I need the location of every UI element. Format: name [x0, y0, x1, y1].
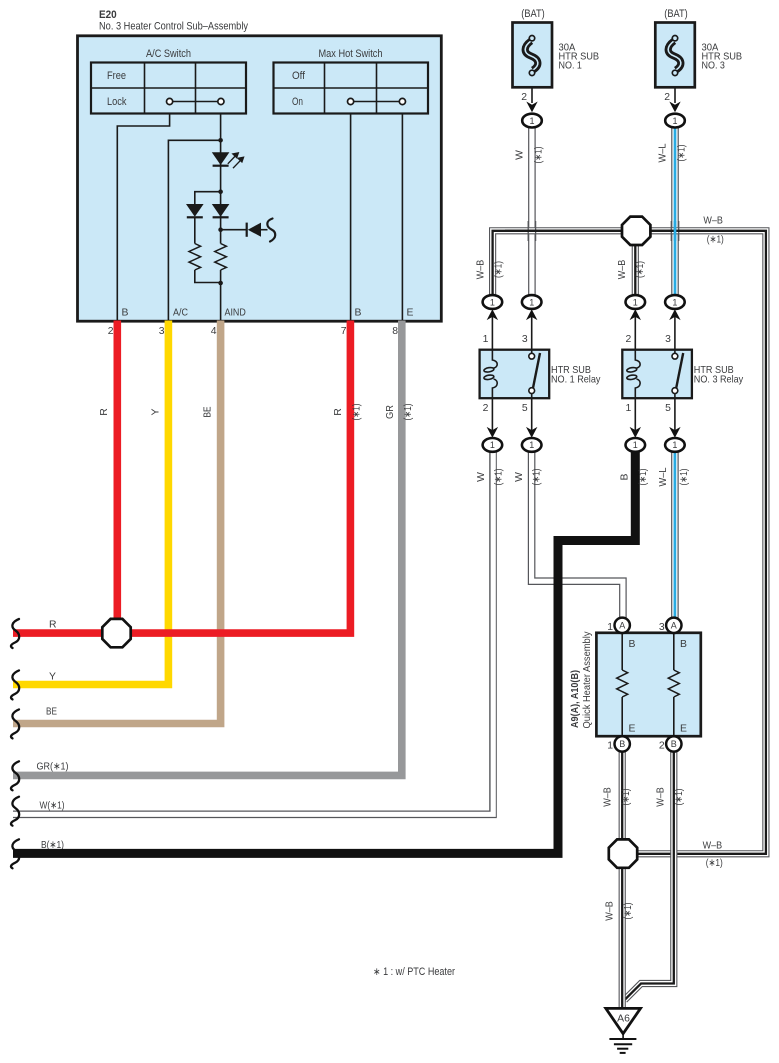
svg-text:(∗1): (∗1)	[706, 858, 723, 869]
svg-text:NO. 1 Relay: NO. 1 Relay	[551, 374, 601, 385]
svg-text:3: 3	[159, 326, 165, 337]
svg-text:(∗1): (∗1)	[494, 469, 505, 486]
svg-text:GR: GR	[385, 405, 396, 419]
svg-text:Lock: Lock	[107, 96, 127, 108]
svg-text:BE: BE	[46, 707, 57, 718]
svg-text:8: 8	[392, 326, 398, 337]
svg-text:1: 1	[607, 622, 613, 633]
svg-text:1: 1	[672, 116, 677, 126]
svg-text:W(∗1): W(∗1)	[40, 801, 65, 812]
svg-text:(∗1): (∗1)	[635, 261, 646, 278]
svg-text:E20: E20	[99, 9, 117, 21]
svg-text:1: 1	[633, 440, 638, 450]
svg-text:(∗1): (∗1)	[674, 789, 685, 806]
svg-text:AIND: AIND	[225, 308, 246, 319]
svg-text:1: 1	[672, 297, 677, 307]
svg-text:W–B: W–B	[617, 260, 628, 280]
svg-text:W–L: W–L	[658, 467, 669, 486]
svg-text:4: 4	[211, 326, 217, 337]
svg-text:On: On	[292, 96, 303, 108]
svg-text:Y: Y	[151, 408, 162, 415]
svg-text:R: R	[49, 620, 57, 631]
svg-text:B: B	[355, 308, 362, 319]
svg-text:Max Hot Switch: Max Hot Switch	[319, 48, 383, 60]
svg-text:A/C Switch: A/C Switch	[146, 48, 191, 60]
svg-text:B: B	[671, 739, 677, 749]
svg-text:1: 1	[633, 297, 638, 307]
svg-text:E: E	[407, 308, 414, 319]
svg-text:2: 2	[664, 92, 670, 103]
svg-text:(∗1): (∗1)	[534, 147, 545, 164]
svg-text:(∗1): (∗1)	[679, 469, 690, 486]
svg-text:1: 1	[490, 297, 495, 307]
svg-text:Quick Heater Assembly: Quick Heater Assembly	[582, 631, 593, 729]
svg-text:W–B: W–B	[603, 787, 614, 807]
svg-text:(∗1): (∗1)	[638, 469, 649, 486]
svg-text:No. 3 Heater Control Sub–Assem: No. 3 Heater Control Sub–Assembly	[99, 21, 249, 33]
svg-text:5: 5	[522, 403, 528, 414]
svg-text:5: 5	[665, 403, 671, 414]
svg-text:Off: Off	[292, 70, 305, 82]
svg-text:(∗1): (∗1)	[621, 789, 632, 806]
svg-text:1: 1	[490, 440, 495, 450]
svg-text:R: R	[333, 408, 344, 416]
svg-text:B: B	[629, 639, 636, 650]
svg-text:2: 2	[626, 334, 632, 345]
svg-text:7: 7	[341, 326, 347, 337]
svg-text:∗ 1 : w/ PTC Heater: ∗ 1 : w/ PTC Heater	[373, 966, 455, 978]
svg-text:W: W	[515, 150, 526, 160]
svg-text:NO. 1: NO. 1	[559, 60, 583, 71]
svg-text:(∗1): (∗1)	[677, 145, 688, 162]
svg-text:W: W	[476, 472, 487, 482]
svg-text:W–B: W–B	[475, 260, 486, 280]
svg-text:(BAT): (BAT)	[664, 8, 688, 20]
svg-text:3: 3	[659, 622, 665, 633]
svg-text:NO. 3 Relay: NO. 3 Relay	[694, 374, 744, 385]
svg-text:E: E	[629, 724, 636, 735]
svg-text:R: R	[99, 408, 110, 416]
svg-text:(∗1): (∗1)	[532, 469, 543, 486]
svg-text:(∗1): (∗1)	[707, 235, 724, 246]
svg-text:W–B: W–B	[605, 901, 616, 921]
svg-text:3: 3	[522, 334, 528, 345]
svg-text:W–B: W–B	[703, 841, 723, 852]
svg-text:A6: A6	[617, 1014, 630, 1025]
svg-text:Free: Free	[107, 70, 126, 82]
svg-text:1: 1	[626, 403, 632, 414]
svg-text:2: 2	[483, 403, 489, 414]
svg-text:(BAT): (BAT)	[521, 8, 545, 20]
svg-text:W–B: W–B	[703, 216, 723, 227]
svg-text:1: 1	[483, 334, 489, 345]
svg-text:B: B	[619, 739, 625, 749]
svg-text:(∗1): (∗1)	[403, 404, 414, 421]
svg-text:(∗1): (∗1)	[494, 261, 505, 278]
svg-text:BE: BE	[203, 406, 214, 417]
svg-text:E: E	[680, 724, 687, 735]
svg-text:1: 1	[529, 116, 534, 126]
svg-text:Y: Y	[49, 672, 56, 683]
svg-text:B: B	[680, 639, 687, 650]
svg-text:2: 2	[521, 92, 527, 103]
svg-text:1: 1	[529, 297, 534, 307]
svg-text:NO. 3: NO. 3	[702, 60, 726, 71]
svg-text:A: A	[619, 621, 625, 631]
svg-text:A/C: A/C	[173, 308, 188, 319]
svg-text:2: 2	[108, 326, 114, 337]
svg-text:B: B	[122, 308, 129, 319]
svg-text:2: 2	[659, 741, 665, 752]
svg-text:A9(A), A10(B): A9(A), A10(B)	[570, 670, 581, 728]
svg-text:GR(∗1): GR(∗1)	[37, 762, 69, 773]
svg-text:W–L: W–L	[658, 143, 669, 162]
svg-text:1: 1	[529, 440, 534, 450]
svg-text:W–B: W–B	[656, 787, 667, 807]
svg-text:B: B	[620, 473, 631, 480]
svg-text:(∗1): (∗1)	[352, 404, 363, 421]
svg-text:W: W	[514, 472, 525, 482]
svg-text:A: A	[671, 621, 677, 631]
svg-text:1: 1	[672, 440, 677, 450]
svg-text:(∗1): (∗1)	[623, 903, 634, 920]
svg-text:3: 3	[665, 334, 671, 345]
svg-text:1: 1	[607, 741, 613, 752]
